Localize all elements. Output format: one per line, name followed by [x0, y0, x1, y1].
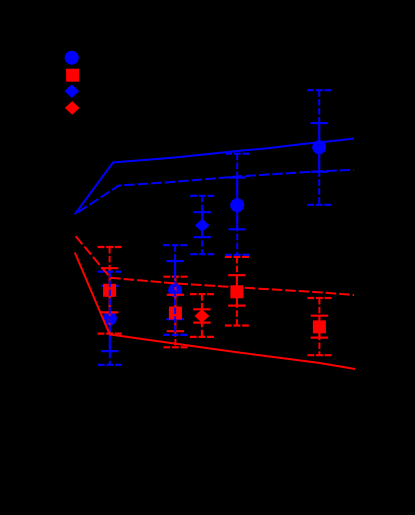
errorbar stat cap red diamond top: [193, 308, 210, 310]
errorbar stat cap S4 top: [311, 315, 328, 317]
errorbar stat cap C4 top: [311, 122, 328, 124]
data point red square S4: [313, 320, 326, 333]
legend marker blue circle: [65, 51, 79, 65]
errorbar stat cap S2 bottom: [167, 330, 184, 332]
errorbar stat cap S1 bottom: [101, 311, 118, 313]
theory curve red dashed: [75, 236, 354, 295]
data point red square S3: [230, 285, 243, 298]
legend marker blue diamond: [64, 84, 79, 98]
errorbar stat vertical red diamond: [201, 309, 203, 322]
errorbar stat cap C2 top: [166, 260, 183, 262]
errorbar sys cap C1 top dashed: [98, 271, 122, 273]
errorbar stat cap S4 bottom: [311, 337, 328, 339]
theory curve red solid: [75, 253, 355, 370]
data point blue circle C3: [230, 198, 244, 212]
theory curve blue dashed: [75, 170, 354, 215]
errorbar stat vertical C3: [236, 178, 238, 230]
errorbar stat vertical C1: [109, 286, 111, 351]
errorbar stat cap S2 top: [167, 294, 184, 296]
errorbar stat vertical S3: [236, 275, 238, 305]
errorbar sys dashed vertical C1: [109, 272, 111, 365]
errorbar stat vertical C2: [174, 261, 176, 319]
errorbar stat cap C1 top: [101, 285, 118, 287]
errorbar stat cap S1 top: [101, 267, 118, 269]
errorbar sys cap S2 bottom dashed: [163, 346, 187, 348]
errorbar sys cap C1 bottom dashed: [98, 364, 122, 366]
errorbar stat cap C2 bottom: [166, 318, 183, 320]
errorbar sys dashed vertical C2: [174, 245, 176, 335]
errorbar sys dashed vertical S4: [318, 298, 320, 355]
errorbar sys cap S4 bottom dashed: [307, 354, 331, 356]
errorbar sys dashed vertical S3: [236, 257, 238, 326]
data point blue diamond: [195, 219, 210, 232]
data point red square S1: [103, 284, 116, 297]
legend marker red square: [66, 69, 79, 82]
errorbar sys cap S3 bottom dashed: [225, 324, 249, 326]
errorbar sys cap C3 bottom dashed: [225, 254, 249, 256]
errorbar stat cap blue diamond top: [194, 211, 211, 213]
errorbar sys dashed vertical S1: [109, 247, 111, 334]
errorbar sys dashed vertical C4: [318, 90, 320, 205]
data point blue circle C4: [312, 140, 326, 154]
errorbar sys cap C2 bottom dashed: [163, 334, 187, 336]
errorbar stat cap C4 bottom: [311, 171, 328, 173]
errorbar sys cap C4 top dashed: [307, 89, 331, 91]
theory curve blue solid: [75, 139, 354, 215]
legend marker red diamond: [65, 101, 80, 115]
errorbar sys cap blue diamond top dashed: [190, 195, 214, 197]
errorbar stat vertical S1: [109, 268, 111, 312]
errorbar sys dashed vertical red diamond: [201, 294, 203, 337]
errorbar stat cap S3 top: [228, 274, 245, 276]
errorbar sys cap S2 top dashed: [163, 276, 187, 278]
errorbar stat cap S3 bottom: [228, 305, 245, 307]
errorbar sys cap red diamond bottom dashed: [190, 336, 214, 338]
errorbar sys cap red diamond top dashed: [190, 293, 214, 295]
errorbar sys cap S1 top dashed: [98, 246, 122, 248]
errorbar sys cap S3 top dashed: [225, 256, 249, 258]
data point red square S2: [169, 307, 182, 320]
errorbar stat cap C3 top: [229, 176, 246, 178]
errorbar stat vertical S4: [318, 316, 320, 338]
errorbar stat cap blue diamond bottom: [194, 236, 211, 238]
data point blue circle C2: [168, 283, 182, 297]
errorbar sys cap S1 bottom dashed: [98, 333, 122, 335]
data point blue circle C1: [103, 312, 117, 326]
errorbar stat vertical S2: [174, 295, 176, 331]
errorbar stat cap C3 bottom: [229, 228, 246, 230]
errorbar sys dashed vertical S2: [174, 277, 176, 348]
errorbar sys cap S4 top dashed: [307, 297, 331, 299]
errorbar sys cap C2 top dashed: [163, 244, 187, 246]
errorbar stat cap C1 bottom: [101, 350, 118, 352]
errorbar sys cap C4 bottom dashed: [307, 204, 331, 206]
errorbar sys dashed vertical C3: [236, 154, 238, 255]
data point red diamond: [195, 309, 210, 322]
errorbar stat vertical blue diamond: [201, 212, 203, 237]
errorbar sys cap blue diamond bottom dashed: [190, 253, 214, 255]
errorbar sys dashed vertical blue diamond: [201, 196, 203, 254]
errorbar stat cap red diamond bottom: [193, 322, 210, 324]
errorbar sys cap C3 top dashed: [225, 153, 249, 155]
errorbar stat vertical C4: [318, 123, 320, 172]
